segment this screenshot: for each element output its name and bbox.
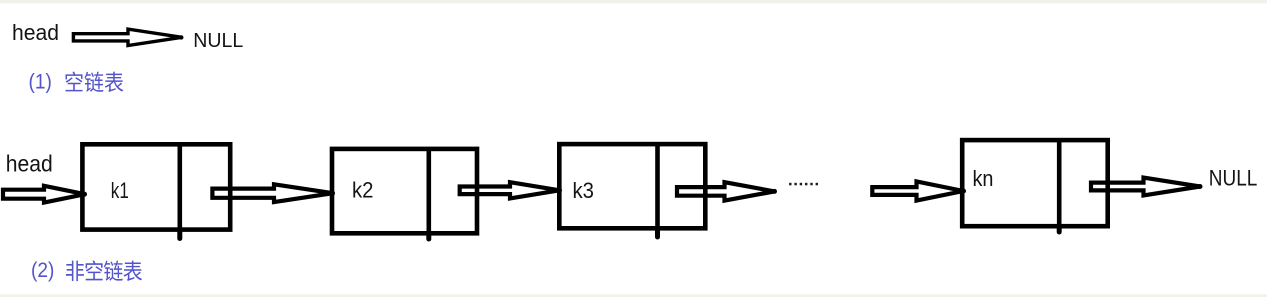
arrow k2 to k3: [460, 182, 560, 198]
arrow tip blob kn to NULL: [1198, 184, 1203, 189]
arrow head to k1: [3, 186, 85, 203]
arrow ellipsis to kn: [872, 182, 963, 201]
arrow kn to NULL: [1091, 178, 1200, 196]
arrow k3 to ellipsis: [677, 182, 775, 200]
svg-text:(2): (2): [31, 259, 54, 282]
tick below k3: [655, 228, 660, 237]
arrow k1 to k2: [212, 184, 333, 202]
caption text 空链表: [66, 72, 124, 93]
svg-text:NULL: NULL: [193, 30, 243, 52]
svg-text:(1): (1): [29, 70, 52, 93]
arrow tip blob k2 to k3: [557, 188, 562, 193]
arrow tip blob k1 to k2: [330, 191, 335, 196]
bottom page band: [0, 294, 1267, 297]
caption text 非空链表: [66, 260, 142, 281]
ellipsis dots: [789, 183, 818, 186]
svg-text:head: head: [12, 20, 59, 45]
arrow tip blob head to k1: [82, 192, 87, 197]
svg-text:kn: kn: [973, 166, 994, 191]
tick below k1: [177, 230, 182, 239]
svg-text:NULL: NULL: [1209, 165, 1258, 190]
node box k1: [82, 144, 230, 229]
top page band: [0, 0, 1267, 3]
tick below kn: [1057, 226, 1062, 232]
arrow head to NULL (row 1): [73, 29, 181, 45]
svg-text:k1: k1: [111, 178, 129, 203]
svg-text:head: head: [6, 150, 53, 176]
node box k3: [559, 144, 705, 228]
arrow tip blob ellipsis to kn: [961, 189, 966, 194]
node box kn: [962, 140, 1107, 226]
arrow tip blob k3 to ellipsis: [772, 189, 777, 194]
arrow tip blob head to NULL (row 1): [179, 35, 183, 39]
node box k2: [332, 149, 477, 233]
svg-text:k2: k2: [352, 178, 374, 203]
tick below k2: [426, 233, 431, 239]
svg-text:k3: k3: [573, 178, 595, 203]
